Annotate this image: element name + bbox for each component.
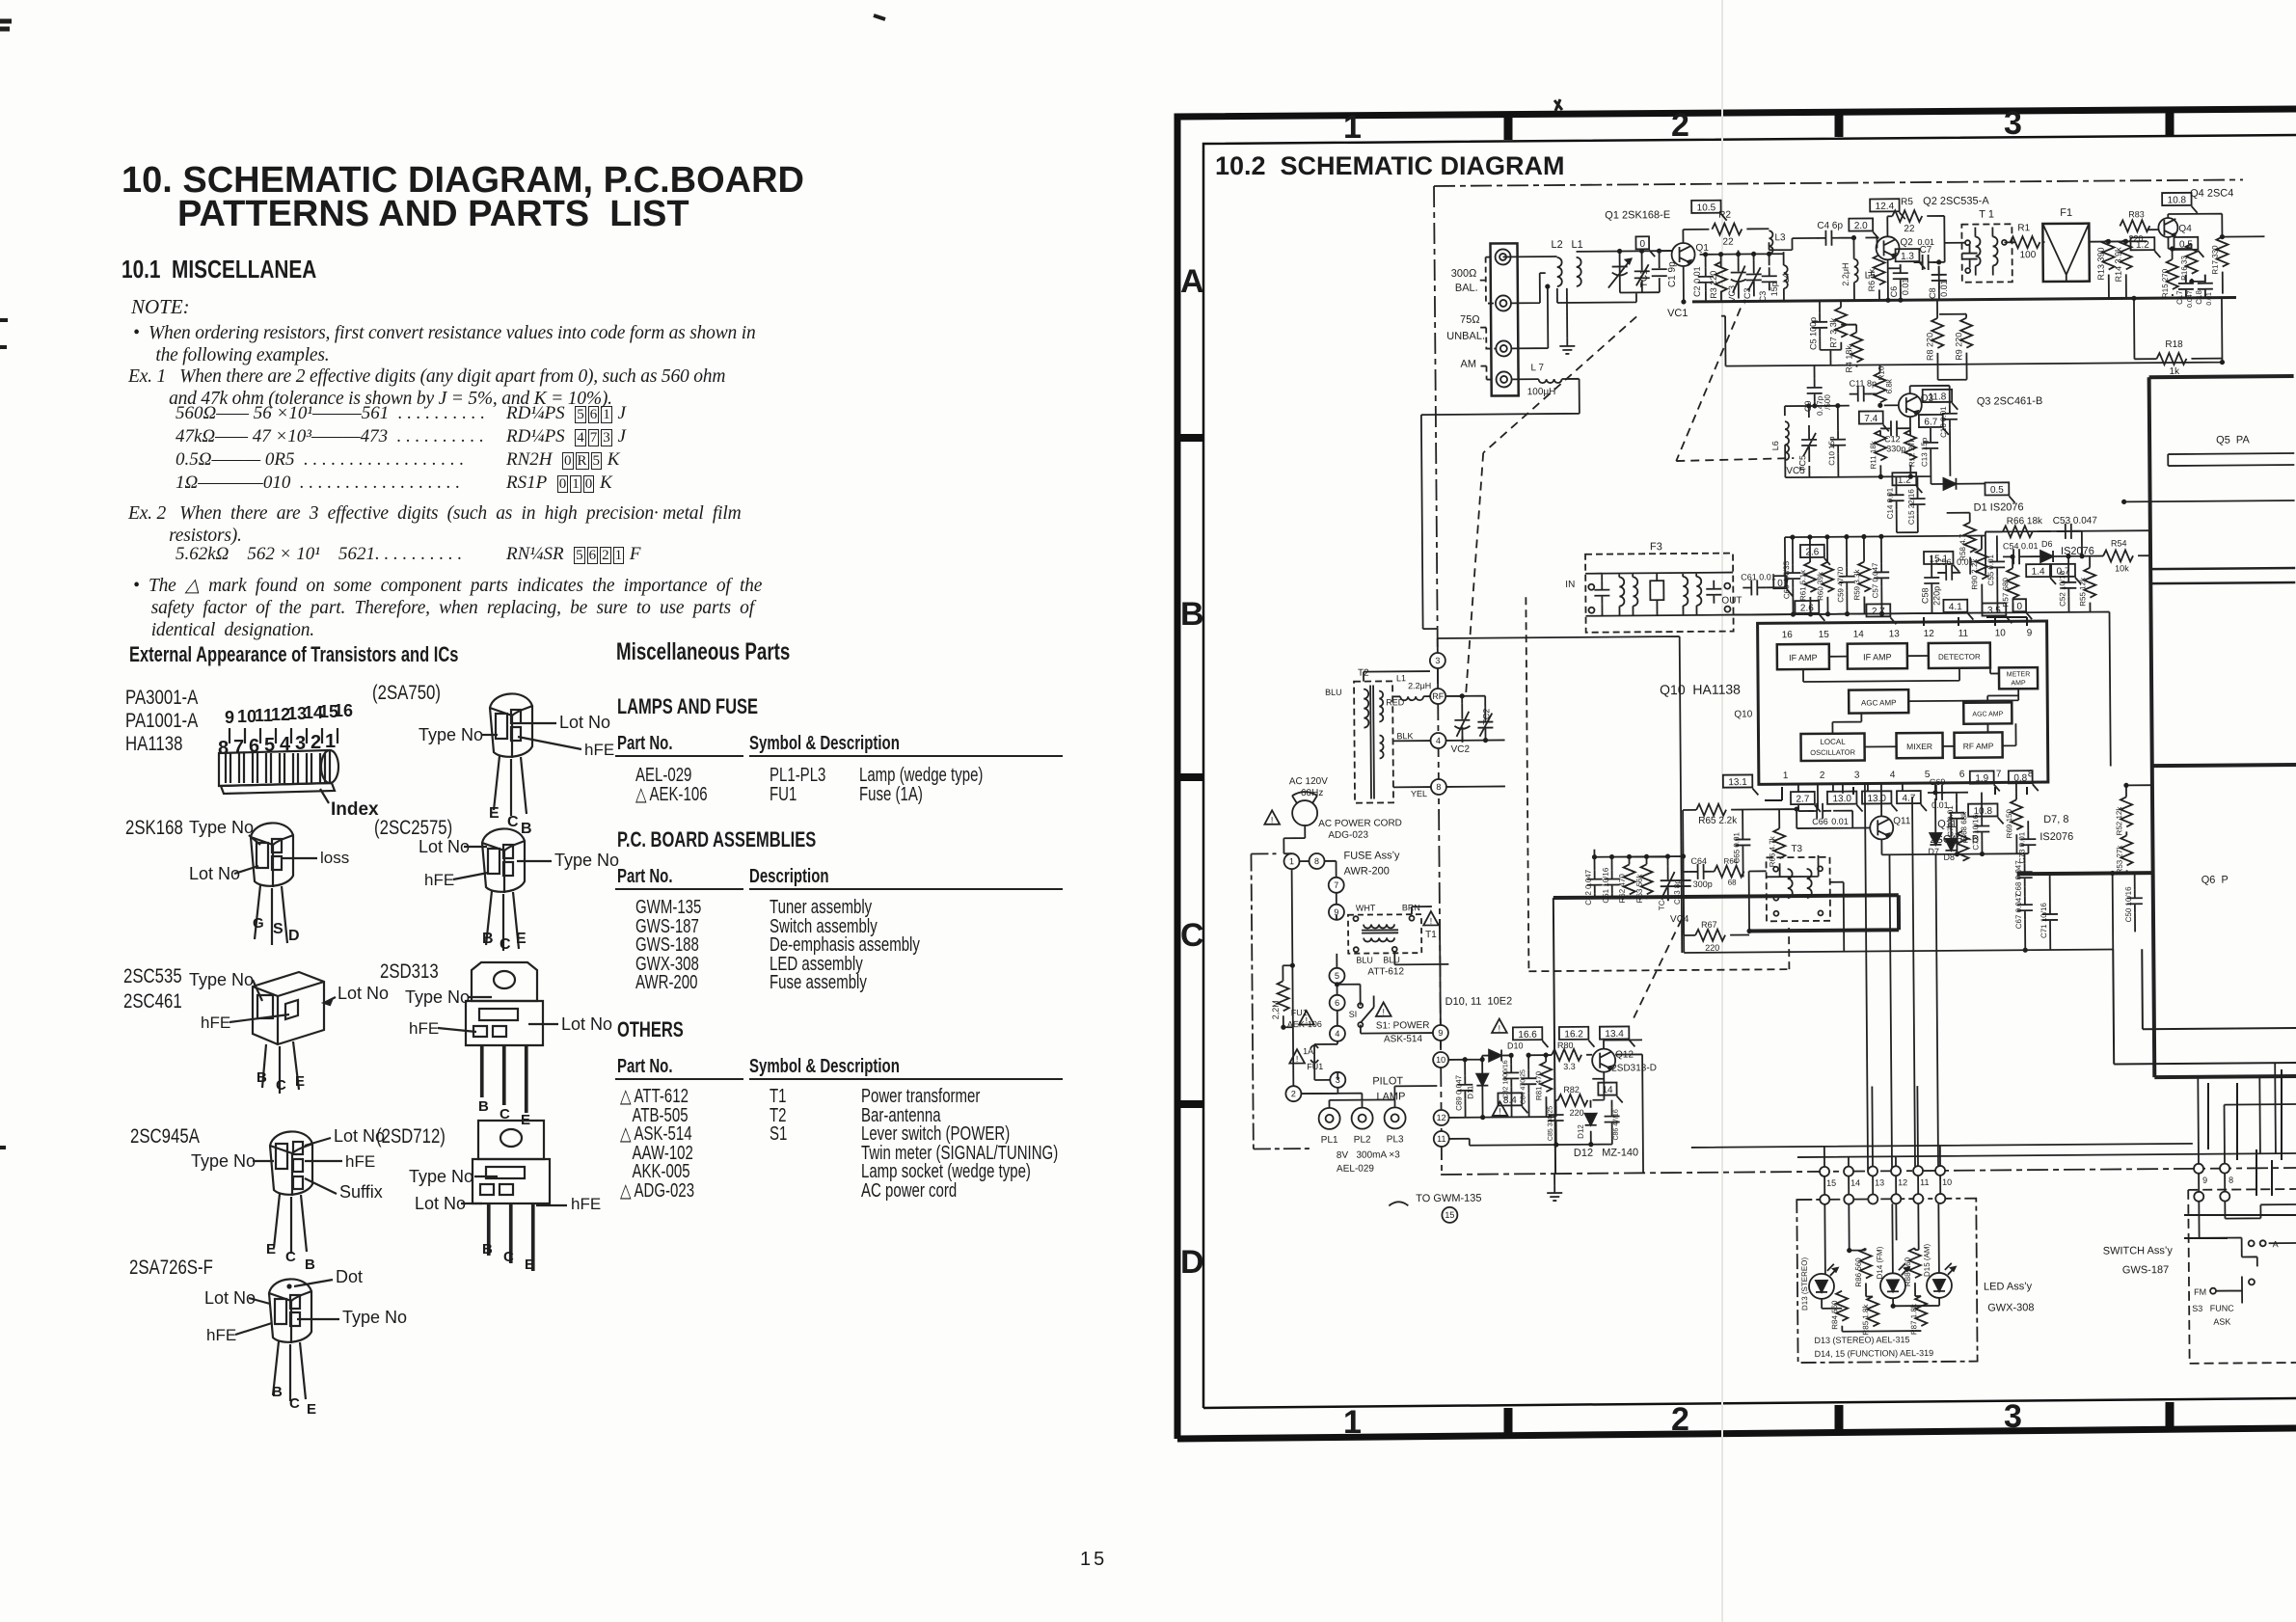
svg-text:C13 15p: C13 15p xyxy=(1920,437,1929,467)
svg-text:R66 4.7k: R66 4.7k xyxy=(1768,835,1776,867)
resistor R4 18k xyxy=(1850,333,1862,363)
capacitor C70 0.01 xyxy=(1949,804,1964,827)
svg-text:R85 1.8k: R85 1.8k xyxy=(1861,1303,1870,1335)
voltage box 2.6 xyxy=(1800,545,1824,557)
svg-text:2SD313-D: 2SD313-D xyxy=(1611,1063,1657,1073)
svg-text:C17: C17 xyxy=(2175,290,2184,305)
svg-text:220: 220 xyxy=(1705,943,1719,953)
svg-text:0.01: 0.01 xyxy=(1917,237,1934,247)
safety S1 xyxy=(1376,1002,1391,1016)
resistor R14 3.9k xyxy=(2120,239,2131,269)
svg-text:GWX-308: GWX-308 xyxy=(1987,1302,2034,1313)
svg-text:D11: D11 xyxy=(1466,1085,1474,1099)
svg-text:C84 470/25: C84 470/25 xyxy=(1520,1069,1526,1104)
resistor R66 18k xyxy=(2003,526,2033,537)
antenna terminal board xyxy=(1490,243,1518,395)
transistor package 2SD313 xyxy=(405,962,612,1128)
svg-text:E: E xyxy=(516,931,527,947)
block METER AMP xyxy=(1999,667,2038,689)
svg-text:R83: R83 xyxy=(2128,209,2145,219)
resistor R80 3.3 xyxy=(1552,1049,1581,1061)
connector 9b xyxy=(1329,905,1344,920)
capacitor C9 0.47p/500 xyxy=(1807,379,1823,402)
safety D11 xyxy=(1492,1018,1507,1033)
svg-text:AGC AMP: AGC AMP xyxy=(1861,698,1897,707)
svg-text:E: E xyxy=(489,805,500,822)
svg-text:Dot: Dot xyxy=(336,1267,363,1286)
svg-text:Lot No: Lot No xyxy=(334,1126,385,1146)
svg-text:15: 15 xyxy=(1826,1178,1836,1188)
coil L3 xyxy=(1746,228,1769,230)
svg-text:R53 27k: R53 27k xyxy=(2115,845,2123,875)
svg-text:5: 5 xyxy=(1335,971,1339,981)
resistor R82 220 xyxy=(1557,1095,1587,1106)
resistor R55 12k xyxy=(2084,568,2095,598)
svg-text:12.4: 12.4 xyxy=(1876,202,1895,212)
IC pin stubs bottom xyxy=(1765,787,2027,800)
connector 15b xyxy=(1442,1207,1457,1223)
svg-text:C12: C12 xyxy=(1884,434,1901,444)
resistor 2.2M xyxy=(1277,981,1288,1011)
voltage box 12.4 xyxy=(1870,199,1900,211)
resistor R66b 4.7k xyxy=(1773,828,1785,858)
svg-text:B: B xyxy=(1180,596,1204,633)
switch contacts xyxy=(2249,1240,2255,1246)
svg-text:T1: T1 xyxy=(1425,930,1437,940)
svg-text:3: 3 xyxy=(1854,770,1860,781)
capacitor C3 15p xyxy=(1762,267,1777,290)
LED D13 (STEREO) xyxy=(1809,1274,1834,1299)
tuning gang link (dashed diagonals) xyxy=(1463,308,1798,1022)
connector 10 xyxy=(1433,1052,1448,1068)
svg-text:2.2μH: 2.2μH xyxy=(1408,681,1431,690)
power rail wires xyxy=(1448,1040,1643,1175)
safety mark T1 xyxy=(1423,911,1439,926)
resistor R85 1.8k xyxy=(1867,1296,1878,1326)
voltage box 2.0 xyxy=(1849,218,1873,230)
terminal circle 3 xyxy=(1430,653,1445,668)
svg-text:16: 16 xyxy=(334,701,353,720)
svg-text:R2: R2 xyxy=(1718,210,1731,221)
svg-text:7.4: 7.4 xyxy=(1864,414,1877,424)
resistor R60 39k xyxy=(1822,562,1833,592)
block DETECTOR xyxy=(1929,642,1990,668)
capacitor C85 330/25 xyxy=(1549,1106,1564,1129)
svg-text:B: B xyxy=(482,1241,493,1257)
svg-text:IF AMP: IF AMP xyxy=(1863,652,1892,662)
resistor R61 5.1k xyxy=(1804,562,1816,592)
svg-text:!: ! xyxy=(1499,1023,1501,1033)
capacitor C10 15p xyxy=(1830,431,1846,454)
svg-text:Q11: Q11 xyxy=(1893,816,1911,826)
svg-text:VC4: VC4 xyxy=(1670,914,1689,925)
resistor R63 56k xyxy=(1641,864,1653,894)
transistor package 2SC535/2SC461 xyxy=(189,970,389,1094)
svg-text:8: 8 xyxy=(1314,856,1319,866)
AC plug xyxy=(1292,800,1317,825)
svg-text:L4: L4 xyxy=(1781,273,1791,283)
svg-text:D13 (STEREO) AEL-315: D13 (STEREO) AEL-315 xyxy=(1814,1335,1909,1345)
resistor R1 100 xyxy=(2010,236,2039,248)
svg-text:!: ! xyxy=(1499,1106,1501,1116)
svg-text:13.0: 13.0 xyxy=(1832,794,1851,804)
svg-text:0: 0 xyxy=(1639,239,1645,250)
terminal circle RF xyxy=(1430,689,1445,704)
svg-text:R82: R82 xyxy=(1563,1085,1580,1095)
capacitor C5 100p xyxy=(1812,313,1827,337)
connector 2b xyxy=(1285,1086,1301,1101)
svg-text:C56: C56 xyxy=(1935,557,1952,567)
svg-text:C1 9p: C1 9p xyxy=(1667,261,1678,287)
svg-text:300Ω: 300Ω xyxy=(1451,268,1477,280)
svg-text:6: 6 xyxy=(1959,770,1965,780)
svg-text:1.9: 1.9 xyxy=(1975,773,1988,784)
svg-text:B: B xyxy=(272,1384,283,1400)
wires Q1 tank xyxy=(1694,250,1784,302)
main bus section A (y315) xyxy=(1692,297,2236,301)
svg-text:14: 14 xyxy=(1850,1178,1860,1188)
svg-text:G: G xyxy=(253,915,264,932)
svg-text:6: 6 xyxy=(1335,998,1339,1008)
voltage box 0.5q4 xyxy=(2174,237,2198,250)
svg-text:C: C xyxy=(503,1249,514,1265)
capacitor C56 0.01 xyxy=(1937,565,1960,581)
svg-text:D: D xyxy=(1180,1244,1204,1281)
terminal 75ohm UNBAL xyxy=(1496,340,1511,356)
svg-text:R9 220: R9 220 xyxy=(1954,333,1963,361)
svg-text:!: ! xyxy=(1271,815,1274,825)
svg-text:TO GWM-135: TO GWM-135 xyxy=(1416,1193,1481,1205)
block AGC AMP 2 xyxy=(1963,702,2012,723)
svg-text:R5: R5 xyxy=(1901,197,1913,207)
wire Q1 out xyxy=(1683,230,1710,302)
svg-text:0.01: 0.01 xyxy=(1957,557,1974,567)
resistor R88 560 xyxy=(1909,1248,1921,1278)
svg-text:1: 1 xyxy=(1343,1404,1362,1441)
Q5 input lines xyxy=(2168,453,2294,466)
trimmer TC5 xyxy=(1801,425,1817,462)
svg-text:B: B xyxy=(305,1257,315,1273)
svg-text:R10: R10 xyxy=(1877,365,1885,380)
svg-text:R66 18k: R66 18k xyxy=(2007,516,2043,527)
Q4 wires xyxy=(2147,213,2265,298)
voltage box 1.2b xyxy=(1892,473,1916,485)
svg-text:Lot No: Lot No xyxy=(561,1014,612,1034)
svg-text:0.5: 0.5 xyxy=(1990,485,2004,496)
capacitor C7 0.01 xyxy=(1914,255,1937,270)
svg-text:BLU: BLU xyxy=(1356,956,1373,965)
top band ticks xyxy=(1504,114,1513,140)
svg-text:C18: C18 xyxy=(2195,290,2203,305)
IF transformer T1 (dashed) xyxy=(1961,224,2012,282)
capacitor C53 0.047 xyxy=(2057,524,2080,539)
voltage box 1.4 xyxy=(2026,564,2050,577)
connector 6 xyxy=(1330,995,1345,1011)
trimmer TC1 xyxy=(1634,251,1650,292)
svg-text:ATT-612: ATT-612 xyxy=(1367,966,1404,977)
resistor R81 470 xyxy=(1540,1062,1552,1092)
capacitor C72 10/16 xyxy=(1974,818,1989,841)
svg-text:UNBAL.: UNBAL. xyxy=(1446,331,1485,342)
resistor R87 1.8k xyxy=(1915,1296,1927,1326)
resistor R9 220 xyxy=(1960,318,1972,348)
svg-text:9: 9 xyxy=(2027,628,2033,638)
svg-text:Index: Index xyxy=(331,799,379,820)
resistor R62 470 xyxy=(1624,864,1635,894)
svg-text:R7 3.3k: R7 3.3k xyxy=(1828,317,1838,348)
svg-text:FM: FM xyxy=(2194,1287,2206,1297)
svg-text:D10, 11 10E2: D10, 11 10E2 xyxy=(1445,995,1513,1008)
svg-text:VC2: VC2 xyxy=(1451,744,1471,755)
diode D8 xyxy=(1945,839,1957,851)
resistor R65 2.2k xyxy=(1696,804,1726,816)
power wires T2 xyxy=(1364,636,1681,813)
LED assembly GWX-308 box (dash-dot) xyxy=(1796,1199,1977,1363)
svg-text:1: 1 xyxy=(325,731,336,752)
safety FU1 xyxy=(1299,1011,1314,1025)
svg-text:/500: /500 xyxy=(1823,394,1832,410)
svg-text:330p: 330p xyxy=(1886,444,1905,453)
svg-text:AC POWER CORD: AC POWER CORD xyxy=(1318,818,1402,829)
resistor R83 220 xyxy=(2120,220,2149,231)
svg-text:3.5: 3.5 xyxy=(1987,606,2001,616)
IC internal wires xyxy=(1803,655,2019,747)
svg-text:10.2 SCHEMATIC DIAGRAM: 10.2 SCHEMATIC DIAGRAM xyxy=(1215,151,1565,180)
svg-text:10.5: 10.5 xyxy=(1697,203,1716,213)
svg-text:4.1: 4.1 xyxy=(1949,602,1962,612)
svg-text:R12 27k: R12 27k xyxy=(1907,437,1916,467)
svg-text:Type No: Type No xyxy=(554,851,619,870)
connector 3b xyxy=(1330,1072,1345,1088)
resistor R86 560 xyxy=(1860,1248,1872,1278)
svg-text:C67 0.047: C67 0.047 xyxy=(2014,893,2023,930)
svg-text:LED Ass’y: LED Ass’y xyxy=(1984,1281,2033,1292)
svg-text:hFE: hFE xyxy=(206,1326,236,1344)
svg-text:VC3: VC3 xyxy=(1727,285,1737,303)
svg-text:Q10: Q10 xyxy=(1734,709,1752,719)
junction circle 15 xyxy=(1820,1167,1829,1176)
svg-text:C58: C58 xyxy=(1920,587,1930,604)
svg-text:Type No: Type No xyxy=(191,1151,256,1171)
svg-text:R6 1k: R6 1k xyxy=(1867,268,1877,291)
svg-text:11: 11 xyxy=(1958,629,1969,639)
svg-text:C2 0.01: C2 0.01 xyxy=(1692,266,1702,297)
wire into Q1 xyxy=(1660,250,1673,252)
transistor package 2SC945A xyxy=(191,1126,385,1273)
block IF AMP 2 xyxy=(1848,643,1907,668)
capacitor C13 15p xyxy=(1923,434,1938,457)
capacitor C8 0.01 xyxy=(1931,266,1947,289)
svg-text:1: 1 xyxy=(1343,109,1362,146)
svg-text:T 1: T 1 xyxy=(1979,208,1994,220)
left band ticks xyxy=(1177,434,1203,442)
svg-text:D14, 15 (FUNCTION) AEL-319: D14, 15 (FUNCTION) AEL-319 xyxy=(1815,1348,1934,1359)
voltage boxes above IC pins xyxy=(1795,601,1819,613)
lamp PL3 xyxy=(1385,1107,1406,1128)
svg-text:Lot No: Lot No xyxy=(415,1194,466,1213)
svg-text:ADG-023: ADG-023 xyxy=(1328,830,1368,841)
svg-text:IS2076: IS2076 xyxy=(2039,831,2073,843)
svg-text:FUSE Ass’y: FUSE Ass’y xyxy=(1343,850,1400,861)
svg-text:!: ! xyxy=(1382,1007,1385,1016)
varcap TC4 xyxy=(1661,866,1676,901)
ground C xyxy=(1547,1185,1562,1201)
ground near coils xyxy=(1559,338,1575,354)
svg-text:14: 14 xyxy=(1853,630,1865,640)
Q3 wires xyxy=(1784,365,1950,477)
svg-text:12: 12 xyxy=(1924,629,1935,639)
svg-text:L 7: L 7 xyxy=(1530,363,1544,373)
svg-text:C61 0.01: C61 0.01 xyxy=(1741,572,1776,581)
transistor Q3 xyxy=(1899,393,1922,417)
svg-text:OUT: OUT xyxy=(1721,596,1742,607)
vertical IC pin drops xyxy=(1766,783,1938,1172)
capacitor C52 10/16 xyxy=(2061,574,2076,597)
svg-text:PL1: PL1 xyxy=(1321,1135,1338,1146)
svg-text:GWS-187: GWS-187 xyxy=(2122,1264,2169,1276)
resistor R12 27k xyxy=(1904,430,1916,460)
capacitor C68 0.047 xyxy=(2017,863,2033,886)
switch S1 xyxy=(1358,1003,1363,1008)
svg-text:BLU: BLU xyxy=(1325,688,1342,697)
resistor R3 220 xyxy=(1715,262,1727,292)
svg-text:L6: L6 xyxy=(1770,441,1780,450)
svg-text:E: E xyxy=(525,1257,534,1273)
svg-text:Type No: Type No xyxy=(342,1308,407,1327)
capacitor C61 0.01 xyxy=(1742,580,1766,595)
svg-text:100μH: 100μH xyxy=(1527,387,1556,397)
svg-text:1.2: 1.2 xyxy=(1898,475,1911,486)
resistor R69 150 xyxy=(2011,799,2022,829)
connector 11 xyxy=(1434,1131,1449,1147)
svg-text:Q1: Q1 xyxy=(1695,243,1709,254)
svg-text:D13 (STEREO): D13 (STEREO) xyxy=(1800,1257,1809,1311)
capacitor C73 0.01 xyxy=(2020,830,2036,853)
resistor R18 1k xyxy=(2156,353,2186,365)
svg-text:SWITCH Ass’y: SWITCH Ass’y xyxy=(2103,1245,2174,1257)
svg-text:C85 330/25: C85 330/25 xyxy=(1548,1106,1554,1141)
svg-text:13.0: 13.0 xyxy=(1867,794,1886,804)
svg-text:Q1 2SK168-E: Q1 2SK168-E xyxy=(1605,209,1670,222)
svg-text:C53 0.047: C53 0.047 xyxy=(2053,516,2098,527)
voltage box 13.4 xyxy=(1600,1026,1630,1039)
capacitor C66 0.01 xyxy=(1808,803,1831,819)
resistor R17 330 xyxy=(2216,237,2228,267)
coil L1 xyxy=(1577,257,1581,286)
svg-text:Type No: Type No xyxy=(189,970,254,989)
svg-text:R80: R80 xyxy=(1557,1041,1574,1050)
svg-text:R69 150: R69 150 xyxy=(2005,809,2013,839)
svg-text:13.1: 13.1 xyxy=(1728,777,1747,788)
svg-text:C10 15p: C10 15p xyxy=(1827,436,1836,466)
svg-text:C72 10/16: C72 10/16 xyxy=(1971,814,1980,851)
svg-text:3: 3 xyxy=(1435,656,1440,665)
svg-text:11.8: 11.8 xyxy=(1929,392,1947,402)
switch ladder verticals right xyxy=(2208,1069,2282,1196)
capacitor C54 0.01 xyxy=(2005,549,2028,564)
capacitor C17 0.047 xyxy=(2178,275,2194,298)
svg-text:10.8: 10.8 xyxy=(2168,195,2187,205)
svg-text:AM: AM xyxy=(1460,359,1476,370)
voltage box 13.1 xyxy=(1723,774,1753,787)
ceramic filter F3 (dashed) xyxy=(1585,554,1734,633)
svg-text:E: E xyxy=(307,1401,316,1418)
svg-text:4: 4 xyxy=(1436,736,1441,745)
terminal AM xyxy=(1497,371,1512,387)
svg-text:Type No: Type No xyxy=(409,1167,473,1186)
svg-text:R59 3.3k: R59 3.3k xyxy=(1852,569,1861,601)
IC pin stubs top xyxy=(1924,617,2027,626)
svg-text:hFE: hFE xyxy=(345,1152,375,1171)
voltage box 11.8 xyxy=(1923,390,1953,402)
svg-text:R18: R18 xyxy=(2165,339,2183,350)
svg-text:Q6 P: Q6 P xyxy=(2201,875,2228,886)
transistor Q11 xyxy=(1870,816,1893,839)
long bus y990 xyxy=(1684,950,2113,953)
svg-text:0.047: 0.047 xyxy=(2187,290,2194,308)
voltage box 10.8 xyxy=(2162,193,2192,205)
diode D6 xyxy=(2040,551,2053,562)
svg-text:0.01: 0.01 xyxy=(1831,817,1849,826)
svg-text:0.01: 0.01 xyxy=(2206,292,2213,306)
svg-text:3.3: 3.3 xyxy=(1563,1062,1576,1071)
svg-text:AC 120V: AC 120V xyxy=(1289,776,1328,787)
svg-text:VC5: VC5 xyxy=(1786,466,1805,476)
capacitor C2 0.01 xyxy=(1698,268,1714,291)
svg-text:13.4: 13.4 xyxy=(1605,1029,1624,1040)
capacitor C86 47/16 xyxy=(1605,1108,1620,1131)
resistor R53 27k xyxy=(2120,835,2132,865)
svg-text:C86 47/16: C86 47/16 xyxy=(1613,1109,1620,1140)
svg-text:R3 220: R3 220 xyxy=(1709,271,1718,299)
junction circle 14 xyxy=(1844,1167,1853,1176)
svg-text:22: 22 xyxy=(1904,224,1915,234)
IC Q10 HA1138 outline xyxy=(1758,621,2048,784)
svg-text:4: 4 xyxy=(1890,770,1896,780)
svg-text:SI: SI xyxy=(1349,1010,1358,1019)
svg-text:9: 9 xyxy=(1438,1028,1443,1038)
connector 12 xyxy=(1434,1110,1449,1125)
svg-text:TC1: TC1 xyxy=(1639,269,1650,287)
svg-text:12: 12 xyxy=(1898,1177,1907,1187)
svg-text:D1 IS2076: D1 IS2076 xyxy=(1974,501,2024,513)
svg-text:0.01: 0.01 xyxy=(1901,279,1910,296)
svg-text:R17 330: R17 330 xyxy=(2211,245,2220,275)
FET Q1 xyxy=(1671,243,1694,266)
svg-text:R55 12k: R55 12k xyxy=(2078,577,2087,607)
svg-text:6.8k: 6.8k xyxy=(1885,378,1894,393)
svg-text:D15 (AM): D15 (AM) xyxy=(1923,1243,1931,1277)
capacitor C62 0.047 xyxy=(1587,871,1603,894)
svg-text:7: 7 xyxy=(1996,769,2002,779)
svg-text:C50 10/16: C50 10/16 xyxy=(2124,886,2133,923)
svg-text:300p: 300p xyxy=(1693,879,1713,889)
resistor R6 1k xyxy=(1874,255,1885,284)
svg-text:1.3: 1.3 xyxy=(1901,252,1914,262)
svg-text:R54: R54 xyxy=(2111,538,2127,548)
svg-text:LOCAL: LOCAL xyxy=(1820,738,1846,746)
svg-text:C89 0.047: C89 0.047 xyxy=(1454,1074,1463,1111)
resistor R10 6.8k xyxy=(1875,372,1886,402)
svg-text:C: C xyxy=(507,814,519,830)
svg-text:C16 0.01: C16 0.01 xyxy=(1939,406,1948,438)
svg-text:OSCILLATOR: OSCILLATOR xyxy=(1810,748,1855,757)
svg-text:6.7: 6.7 xyxy=(1924,417,1937,427)
resistor R64 68 xyxy=(1715,866,1744,878)
svg-text:MIXER: MIXER xyxy=(1906,742,1932,751)
svg-text:E: E xyxy=(295,1073,305,1090)
voltage box 16.2 xyxy=(1559,1027,1589,1040)
